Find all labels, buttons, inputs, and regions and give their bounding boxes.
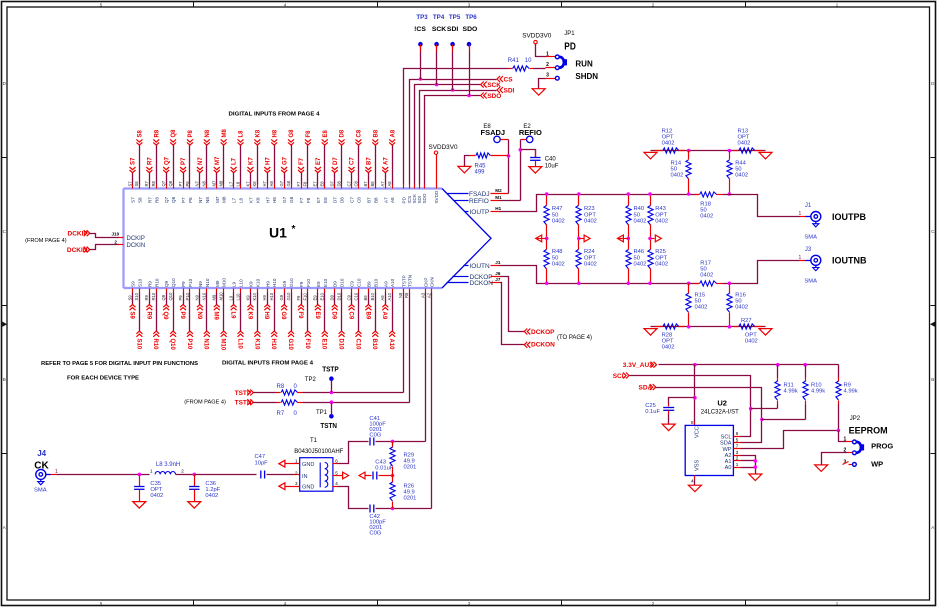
label FROM PAGE 4 (TSTP): [184, 399, 226, 405]
resistor R17 50 0402: [695, 260, 723, 286]
svg-text:C9: C9: [347, 312, 353, 320]
svg-text:CS: CS: [504, 76, 514, 83]
svg-text:0402: 0402: [634, 262, 647, 268]
svg-text:S8: S8: [138, 129, 144, 137]
svg-text:Q8: Q8: [171, 129, 177, 138]
wire IOUTN to bottom rail: [500, 266, 699, 284]
svg-text:P10: P10: [188, 278, 193, 287]
wire S7 net (top): [130, 157, 137, 189]
svg-text:A10: A10: [388, 339, 394, 351]
svg-text:E10: E10: [321, 339, 327, 350]
svg-text:L8 3.9nH: L8 3.9nH: [156, 462, 180, 468]
svg-text:R27: R27: [741, 318, 752, 324]
net label SCL: [613, 373, 629, 380]
wire M7 net (top): [214, 156, 221, 188]
svg-text:SDA: SDA: [720, 441, 732, 447]
JP2 pin 3: [843, 459, 857, 466]
wire P7 net (top): [180, 157, 187, 189]
svg-text:!CS: !CS: [414, 26, 426, 33]
svg-text:K10: K10: [255, 278, 260, 287]
U1 pin names S7 S8: [127, 181, 142, 203]
wire top termination rail: [651, 149, 766, 153]
wire N8 net (top): [204, 129, 211, 188]
U1 pin names K9 K10: [245, 278, 260, 300]
svg-text:G8: G8: [289, 196, 294, 203]
svg-text:10uF: 10uF: [545, 163, 559, 169]
svg-text:G9: G9: [279, 294, 284, 300]
U1 pin names E7 E8: [313, 181, 328, 203]
U1 pin names M7 M8: [212, 180, 227, 203]
svg-text:E7: E7: [313, 181, 318, 187]
wire Q8 net (top): [170, 129, 177, 189]
svg-text:D8: D8: [340, 129, 346, 137]
svg-text:D8: D8: [340, 197, 345, 203]
IC U2 24LC32A-I/ST: [685, 398, 740, 475]
svg-text:D7: D7: [333, 197, 338, 203]
svg-text:1: 1: [295, 459, 298, 464]
wire Q9 net (bottom): [162, 289, 169, 321]
wire M9 net (bottom): [213, 289, 220, 321]
svg-text:E8: E8: [323, 197, 328, 203]
svg-text:S8: S8: [137, 197, 142, 203]
wire E9 net (bottom): [314, 289, 321, 320]
svg-text:OPT: OPT: [584, 212, 596, 218]
wire N7 net (top): [197, 157, 204, 189]
svg-text:F8: F8: [303, 181, 308, 187]
wire P8 net (top): [187, 129, 194, 188]
svg-text:F10: F10: [304, 339, 310, 350]
svg-text:K7: K7: [248, 197, 253, 203]
svg-text:K8: K8: [255, 129, 261, 137]
svg-text:A7: A7: [380, 181, 385, 187]
svg-text:M10: M10: [220, 339, 226, 351]
svg-text:J3: J3: [805, 247, 812, 253]
svg-text:G9: G9: [282, 280, 287, 287]
wire G9 net (bottom): [280, 289, 287, 321]
resistor R12 OPT 0402: [655, 128, 685, 153]
inductor L8 3.9nH: [150, 462, 195, 475]
svg-text:GND: GND: [302, 462, 314, 468]
resistor R28 OPT 0402: [655, 324, 685, 351]
svg-text:K9: K9: [246, 312, 252, 320]
svg-text:F9: F9: [297, 312, 303, 320]
svg-text:IOUTNB: IOUTNB: [832, 256, 867, 266]
ground (JP1): [532, 89, 545, 96]
svg-text:0402: 0402: [738, 140, 751, 146]
svg-text:A8: A8: [390, 129, 396, 137]
wire D9 net (bottom): [331, 289, 338, 320]
svg-text:4.99k: 4.99k: [844, 388, 858, 394]
svg-text:L7: L7: [232, 197, 237, 203]
resistor R44 50 0402: [727, 151, 748, 196]
svg-text:G10: G10: [286, 292, 291, 301]
svg-text:Q7: Q7: [161, 180, 166, 186]
svg-text:R10: R10: [151, 292, 156, 300]
wire DCKIN: [90, 245, 124, 250]
svg-text:R9: R9: [147, 281, 152, 287]
svg-text:PD: PD: [402, 196, 407, 203]
svg-text:50: 50: [634, 212, 640, 218]
wire C10 net (bottom): [354, 289, 361, 351]
wire CS net: [410, 77, 497, 188]
U1 pin names H9 H10: [262, 278, 277, 300]
wire A7 net (top): [382, 157, 389, 189]
svg-text:S10: S10: [137, 278, 142, 287]
svg-text:0402: 0402: [552, 219, 565, 225]
svg-text:R7: R7: [144, 180, 149, 186]
svg-text:G8: G8: [289, 129, 295, 138]
wire L10 net (bottom): [236, 289, 243, 350]
U1 pin names F9 F10: [296, 279, 311, 301]
svg-text:A: A: [3, 525, 6, 530]
svg-text:TSTN: TSTN: [320, 421, 337, 430]
wire B10 net (bottom): [371, 289, 378, 351]
svg-text:S8: S8: [134, 181, 139, 187]
svg-text:G7: G7: [282, 196, 287, 203]
wire F9 net (bottom): [297, 289, 304, 320]
svg-text:A9: A9: [381, 312, 387, 320]
SMA connector J1 IOUTPB: [799, 203, 867, 240]
svg-text:E9: E9: [316, 281, 321, 287]
svg-text:OPT: OPT: [655, 212, 667, 218]
wire Q7 net (top): [163, 156, 170, 188]
svg-text:M9: M9: [212, 294, 217, 300]
U1 pin names K7 K8: [245, 181, 260, 203]
svg-text:D8: D8: [336, 180, 341, 186]
net label 3.3V_AUX: [623, 362, 657, 369]
ground (R28 left): [644, 329, 657, 336]
resistor R43 OPT 0402 (top): [648, 192, 668, 238]
svg-text:H8: H8: [272, 197, 277, 203]
svg-text:M8: M8: [222, 196, 227, 203]
net label SDO: [481, 93, 502, 100]
wire C7 net (top): [349, 157, 356, 189]
svg-text:R9: R9: [145, 312, 151, 320]
wire CKP (C41 row to U1): [425, 289, 427, 442]
svg-text:0402: 0402: [700, 272, 713, 278]
wire L9 net (bottom): [230, 289, 237, 320]
svg-text:C7: C7: [350, 157, 356, 165]
svg-text:N8: N8: [202, 180, 207, 186]
wire R18 to J1: [723, 195, 806, 217]
svg-text:CKP: CKP: [424, 278, 429, 287]
svg-text:6: 6: [736, 431, 739, 436]
wire R8 net (top): [153, 129, 160, 188]
svg-text:DCKIP: DCKIP: [127, 236, 145, 242]
wire VCC net (U2): [693, 365, 697, 426]
svg-text:M10: M10: [218, 292, 223, 301]
U1 pin names M9 M10: [212, 278, 227, 301]
svg-text:FSADJ: FSADJ: [481, 128, 506, 137]
svg-text:R25: R25: [655, 249, 666, 255]
svg-text:0402: 0402: [745, 339, 758, 345]
U1 pin names N9 N10: [195, 278, 210, 300]
power symbol SVDD3V0 (U1 SVDD): [429, 145, 459, 189]
svg-text:C9: C9: [350, 281, 355, 287]
U1 pin name SVDD: [434, 190, 439, 203]
power symbol SVDD3V0 (JP1): [522, 34, 552, 57]
wire F8 net (top): [305, 130, 312, 189]
resistor R10 4.99k: [762, 365, 826, 420]
svg-text:0402: 0402: [584, 219, 597, 225]
svg-text:B10: B10: [370, 292, 375, 300]
svg-text:F8: F8: [306, 197, 311, 203]
svg-text:TP6: TP6: [465, 14, 477, 21]
svg-text:0402: 0402: [634, 219, 647, 225]
svg-text:E10: E10: [320, 292, 325, 300]
svg-text:SVDD3V0: SVDD3V0: [522, 34, 552, 40]
U1 pin names S9 S10: [127, 278, 142, 300]
wire 3.3V_AUX rail: [659, 363, 839, 367]
wire bottom termination rail: [651, 325, 766, 329]
svg-text:M7: M7: [212, 180, 217, 186]
wire VSS to ground: [691, 476, 695, 486]
labels PROG WP: [871, 441, 893, 468]
svg-text:R10: R10: [152, 339, 158, 351]
resistor R7 0: [254, 400, 410, 417]
svg-text:OPT: OPT: [584, 255, 596, 261]
svg-text:E8: E8: [320, 181, 325, 187]
resistor R40 50 0402 (top): [626, 192, 647, 238]
svg-text:J4: J4: [37, 449, 46, 458]
svg-text:B7: B7: [366, 197, 371, 203]
svg-text:P7: P7: [178, 181, 183, 187]
svg-text:K8: K8: [255, 197, 260, 203]
U1 pin names R9 R10: [144, 278, 159, 300]
ground (C25): [662, 424, 675, 431]
svg-text:Q9: Q9: [162, 312, 168, 321]
U1 pin DCKON: [447, 277, 501, 287]
svg-text:C7: C7: [346, 180, 351, 186]
svg-text:K10: K10: [252, 292, 257, 300]
wire SDO net: [425, 94, 481, 189]
U1 pin names D9 D10: [330, 278, 345, 300]
svg-text:E7: E7: [316, 197, 321, 203]
SMA connector J3 IOUTNB: [799, 247, 867, 284]
wire J4 to L8: [51, 474, 150, 476]
svg-text:VSS: VSS: [694, 460, 700, 471]
U1 pin names N7 N8: [195, 180, 210, 203]
svg-text:C10: C10: [354, 339, 360, 351]
svg-text:S9: S9: [131, 281, 136, 287]
svg-text:TSTP: TSTP: [401, 275, 406, 287]
U1 pin names H7 H8: [262, 180, 277, 203]
wire TSTN to U1: [409, 289, 411, 403]
svg-text:CKN: CKN: [430, 277, 435, 287]
svg-text:C47: C47: [255, 454, 266, 460]
ground (VSS): [688, 485, 701, 492]
svg-text:R10: R10: [154, 278, 159, 287]
wire G8 net (top): [288, 129, 295, 189]
svg-text:DCKOP: DCKOP: [531, 329, 555, 336]
svg-text:F7: F7: [299, 157, 305, 165]
svg-text:C7: C7: [350, 197, 355, 203]
svg-text:R7: R7: [147, 197, 152, 203]
test point E2 REFIO: [519, 124, 542, 200]
port arrow (R23 mid): [579, 235, 591, 242]
svg-text:3: 3: [736, 450, 739, 455]
U1 pin DCKOP: [453, 271, 501, 281]
svg-text:D9: D9: [333, 281, 338, 287]
wire A8 net (top): [389, 129, 396, 188]
svg-text:N9: N9: [195, 294, 200, 300]
wire S9 net (bottom): [128, 289, 135, 320]
svg-text:0402: 0402: [695, 304, 708, 310]
svg-text:R45: R45: [475, 163, 487, 169]
DAC U1 body outline: [124, 189, 492, 289]
svg-text:499: 499: [475, 170, 486, 176]
svg-text:D10: D10: [336, 292, 341, 300]
svg-text:DIGITAL INPUTS FROM PAGE 4: DIGITAL INPUTS FROM PAGE 4: [222, 361, 314, 367]
port arrow (T1 pin5): [333, 472, 349, 479]
svg-text:L9: L9: [232, 281, 237, 287]
svg-text:A9: A9: [380, 295, 385, 301]
wire N9 net (bottom): [196, 289, 203, 320]
port arrow (R40 mid): [617, 235, 628, 242]
label FROM PAGE 4 (left): [25, 238, 67, 244]
capacitor C43 0.01uF: [359, 460, 394, 480]
svg-text:N9: N9: [198, 281, 203, 287]
svg-text:J1: J1: [495, 260, 501, 265]
svg-text:4.99k: 4.99k: [811, 388, 825, 394]
svg-text:VCC: VCC: [694, 426, 700, 438]
ground (C35): [133, 502, 146, 509]
svg-text:R8: R8: [151, 180, 156, 186]
wire E7 net (top): [315, 157, 322, 189]
svg-text:SVDD: SVDD: [434, 190, 439, 203]
svg-text:J1: J1: [805, 203, 812, 209]
svg-text:SDI: SDI: [504, 87, 515, 94]
svg-text:2: 2: [295, 470, 298, 475]
svg-text:4: 4: [691, 479, 694, 484]
svg-text:R41: R41: [508, 58, 520, 64]
svg-text:R40: R40: [634, 206, 645, 212]
svg-text:B9: B9: [364, 312, 370, 320]
svg-text:F8: F8: [306, 130, 312, 138]
svg-text:M7: M7: [215, 156, 221, 165]
svg-text:C9: C9: [346, 294, 351, 300]
svg-text:L8: L8: [235, 181, 240, 186]
resistor R9 4.99k: [836, 365, 858, 431]
svg-text:C10: C10: [353, 292, 358, 300]
svg-text:IOUTP: IOUTP: [470, 209, 490, 216]
wire P9 net (bottom): [179, 289, 186, 320]
svg-text:50: 50: [552, 212, 558, 218]
svg-text:Q8: Q8: [171, 196, 176, 203]
svg-text:D9: D9: [331, 312, 337, 320]
svg-text:B10: B10: [373, 278, 378, 287]
wire SDA net: [656, 388, 764, 443]
resistor R13 OPT 0402: [734, 128, 763, 153]
svg-text:P9: P9: [181, 281, 186, 287]
svg-text:M7: M7: [215, 196, 220, 203]
svg-text:T1: T1: [310, 438, 318, 444]
wire G7 net (top): [281, 156, 288, 188]
svg-text:L10: L10: [235, 293, 240, 301]
svg-text:DIGITAL INPUTS FROM PAGE 4: DIGITAL INPUTS FROM PAGE 4: [229, 112, 321, 118]
svg-text:0402: 0402: [662, 140, 675, 146]
svg-text:P9: P9: [179, 312, 185, 320]
svg-text:B0430J50100AHF: B0430J50100AHF: [294, 449, 343, 455]
resistor R18 50 0402: [695, 192, 723, 220]
svg-text:N7: N7: [198, 197, 203, 203]
svg-text:A7: A7: [383, 197, 388, 203]
U1 pin names Q9 Q10: [161, 278, 176, 301]
svg-text:24LC32A-I/ST: 24LC32A-I/ST: [701, 409, 739, 415]
svg-text:F10: F10: [303, 293, 308, 301]
svg-text:GND: GND: [302, 485, 314, 491]
svg-text:(FROM PAGE 4): (FROM PAGE 4): [184, 399, 226, 405]
net label DCKIP (from page 4): [68, 230, 90, 237]
U1 pin names A7 A8: [380, 181, 395, 203]
svg-text:Q9: Q9: [164, 280, 169, 287]
wire K9 net (bottom): [246, 289, 253, 320]
U1 pin names G9 G10: [279, 278, 294, 301]
svg-text:IN: IN: [302, 474, 308, 480]
connector J10: [112, 231, 120, 244]
svg-text:L9: L9: [228, 295, 233, 300]
svg-text:SMA: SMA: [34, 488, 47, 494]
wire C9 net (bottom): [347, 289, 354, 320]
svg-text:P9: P9: [178, 295, 183, 301]
svg-text:SCK: SCK: [432, 26, 446, 33]
svg-text:0402: 0402: [662, 345, 675, 351]
U1 pin IOUTN: [464, 260, 501, 270]
svg-text:Q9: Q9: [161, 294, 166, 300]
svg-text:A9: A9: [383, 281, 388, 287]
port arrow (T1 pin1 GND): [279, 460, 300, 467]
svg-text:R23: R23: [584, 206, 595, 212]
U1 pin names E9 E10: [313, 278, 328, 300]
svg-text:J10: J10: [112, 231, 120, 236]
resistor R25 OPT 0402 (bottom): [648, 237, 668, 286]
svg-text:50: 50: [552, 255, 558, 261]
ground (C36): [188, 502, 201, 509]
test point TP3: [418, 42, 423, 80]
svg-text:IOUTPB: IOUTPB: [832, 212, 867, 222]
svg-text:C8: C8: [353, 180, 358, 186]
svg-text:R48: R48: [552, 249, 563, 255]
svg-text:WP: WP: [722, 447, 731, 453]
svg-text:0402: 0402: [552, 262, 565, 268]
svg-text:0402: 0402: [584, 262, 597, 268]
U1 pin names CKP CKN: [420, 277, 434, 298]
svg-text:A3: A3: [420, 292, 425, 298]
svg-text:G10: G10: [289, 278, 294, 287]
U1 pin names P9 P10: [178, 278, 193, 300]
svg-text:H9: H9: [263, 312, 269, 320]
svg-text:H10: H10: [269, 292, 274, 300]
test point TP5: [450, 42, 455, 91]
svg-text:N8: N8: [205, 197, 210, 203]
svg-text:L8: L8: [239, 197, 244, 203]
wire B7 net (top): [365, 157, 372, 189]
svg-text:Q10: Q10: [171, 278, 176, 287]
svg-text:Q8: Q8: [168, 180, 173, 186]
svg-text:S9: S9: [128, 312, 134, 320]
label DIGITAL INPUTS FROM PAGE 4 (bottom): [222, 361, 314, 367]
note REFER TO PAGE 5: [41, 361, 198, 382]
wire DCKON net: [500, 283, 525, 345]
svg-text:P8: P8: [188, 197, 193, 203]
svg-text:K9: K9: [245, 295, 250, 301]
svg-text:R8: R8: [277, 384, 285, 390]
wire A2 A1 A0 to ground: [741, 456, 758, 475]
svg-text:1: 1: [736, 462, 739, 467]
svg-text:N10: N10: [203, 339, 209, 351]
svg-text:U2: U2: [717, 398, 727, 407]
U1 pin names DCKIP DCKIN: [127, 236, 146, 249]
